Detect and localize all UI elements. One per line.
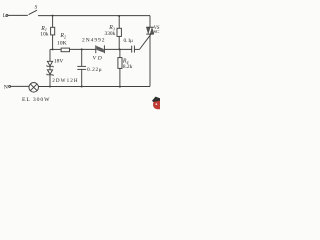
svg-text:10K: 10K (57, 41, 68, 47)
zener VZ2 (47, 70, 53, 87)
wire bottom rail (39, 86, 151, 88)
watermark logo (152, 97, 160, 110)
junction top R3 (118, 15, 120, 17)
svg-text:18V: 18V (54, 59, 64, 65)
svg-text:2N4992: 2N4992 (82, 37, 105, 43)
svg-text:2DW12H: 2DW12H (52, 78, 78, 84)
wire L to switch (8, 14, 28, 16)
junction top R1 (52, 15, 54, 17)
wire right drop to triac (149, 16, 151, 28)
node L terminal (6, 14, 8, 16)
svg-text:0. 1μ: 0. 1μ (124, 38, 134, 44)
svg-text:8.2k: 8.2k (123, 64, 133, 70)
wire diac to R3R4 node to cap (104, 48, 131, 50)
svg-text:S: S (35, 5, 38, 11)
wire cap to gate (134, 48, 139, 50)
junction bottom zener (49, 86, 51, 88)
svg-text:N: N (4, 85, 8, 91)
lamp EL (29, 83, 39, 93)
svg-text:SC14: SC14 (154, 29, 161, 34)
zener VZ1 (47, 49, 53, 69)
capacitor C2 0.1u (132, 46, 135, 53)
wire N to lamp (11, 85, 29, 87)
resistor R3 (117, 16, 121, 49)
switch S (29, 10, 37, 14)
wire R2 to cap node to diac (70, 48, 96, 50)
wire trigger rail left to zener corner (50, 48, 53, 50)
svg-text:0.22μ: 0.22μ (87, 67, 102, 73)
resistor R2 (61, 48, 69, 52)
junction bottom R4 (119, 86, 121, 88)
node N terminal (9, 85, 11, 87)
junction bottom C1 (81, 86, 83, 88)
resistor R1 (51, 16, 55, 50)
capacitor C1 0.22u (77, 49, 86, 86)
diac VD 2N4992 (96, 45, 105, 53)
junction trigger R1 (52, 48, 54, 50)
svg-text:R2: R2 (59, 33, 66, 39)
resistor R4 (118, 49, 122, 86)
junction trigger R3R4 (119, 48, 121, 50)
junction trigger C1 (81, 48, 83, 50)
triac VS (146, 27, 154, 86)
wire trigger rail R1 to R2 (53, 48, 62, 50)
svg-text:VD: VD (93, 55, 102, 61)
svg-text:330k: 330k (105, 31, 116, 37)
wire gate diagonal (140, 34, 152, 49)
svg-text:EL 300W: EL 300W (22, 97, 50, 103)
wire top rail (38, 15, 150, 17)
svg-text:10k: 10k (40, 32, 49, 38)
svg-text:L: L (3, 13, 6, 19)
